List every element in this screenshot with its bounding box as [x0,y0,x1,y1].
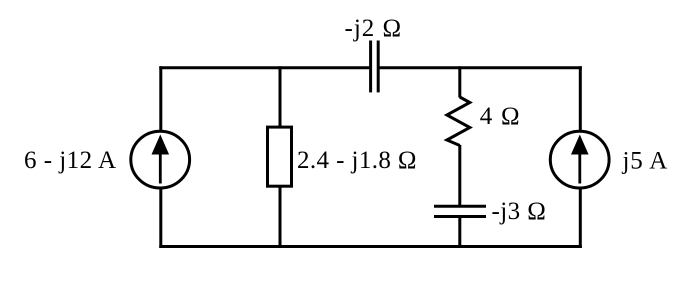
svg-text:j5 A: j5 A [622,148,668,175]
svg-text:6 - j12 A: 6 - j12 A [24,147,116,174]
svg-text:2.4 - j1.8 Ω: 2.4 - j1.8 Ω [297,147,417,174]
svg-text:-j2 Ω: -j2 Ω [345,15,402,42]
svg-text:-j3 Ω: -j3 Ω [492,198,546,225]
svg-text:4 Ω: 4 Ω [480,103,520,130]
